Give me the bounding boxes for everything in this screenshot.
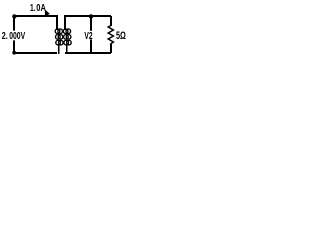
inductor L1 (primary winding) <box>55 15 63 54</box>
label 2.000V source value (white box over wire) <box>1 31 27 42</box>
svg-text:2.: 2. <box>2 31 8 42</box>
svg-text:V2: V2 <box>84 31 92 42</box>
wire: bottom wire of right loop <box>65 52 111 54</box>
wire: left vertical wire <box>13 16 15 53</box>
wire: top wire of left loop <box>13 15 57 17</box>
node A: junction dot top-left <box>12 14 16 18</box>
wire: right vertical wire top lead of resistor <box>110 16 112 26</box>
wire: bottom wire of left loop <box>13 52 57 54</box>
current arrow head <box>45 10 50 17</box>
inductor L2 (secondary winding) <box>63 15 71 54</box>
resistor R1 5 ohm zigzag <box>108 26 113 44</box>
node B: junction dot bottom-left <box>12 51 16 55</box>
wire: V2 measurement wire <box>90 16 92 53</box>
node C: junction dot on top wire at V2 <box>89 14 93 18</box>
wire: right vertical wire bottom lead of resistor <box>110 44 112 54</box>
svg-text:000V: 000V <box>9 31 25 42</box>
wire: top wire of right loop <box>65 15 111 17</box>
svg-text:0A: 0A <box>36 3 46 14</box>
label V2 (white box over wire) <box>84 31 93 42</box>
svg-text:1.: 1. <box>30 3 36 14</box>
svg-text:5Ω: 5Ω <box>116 30 126 42</box>
